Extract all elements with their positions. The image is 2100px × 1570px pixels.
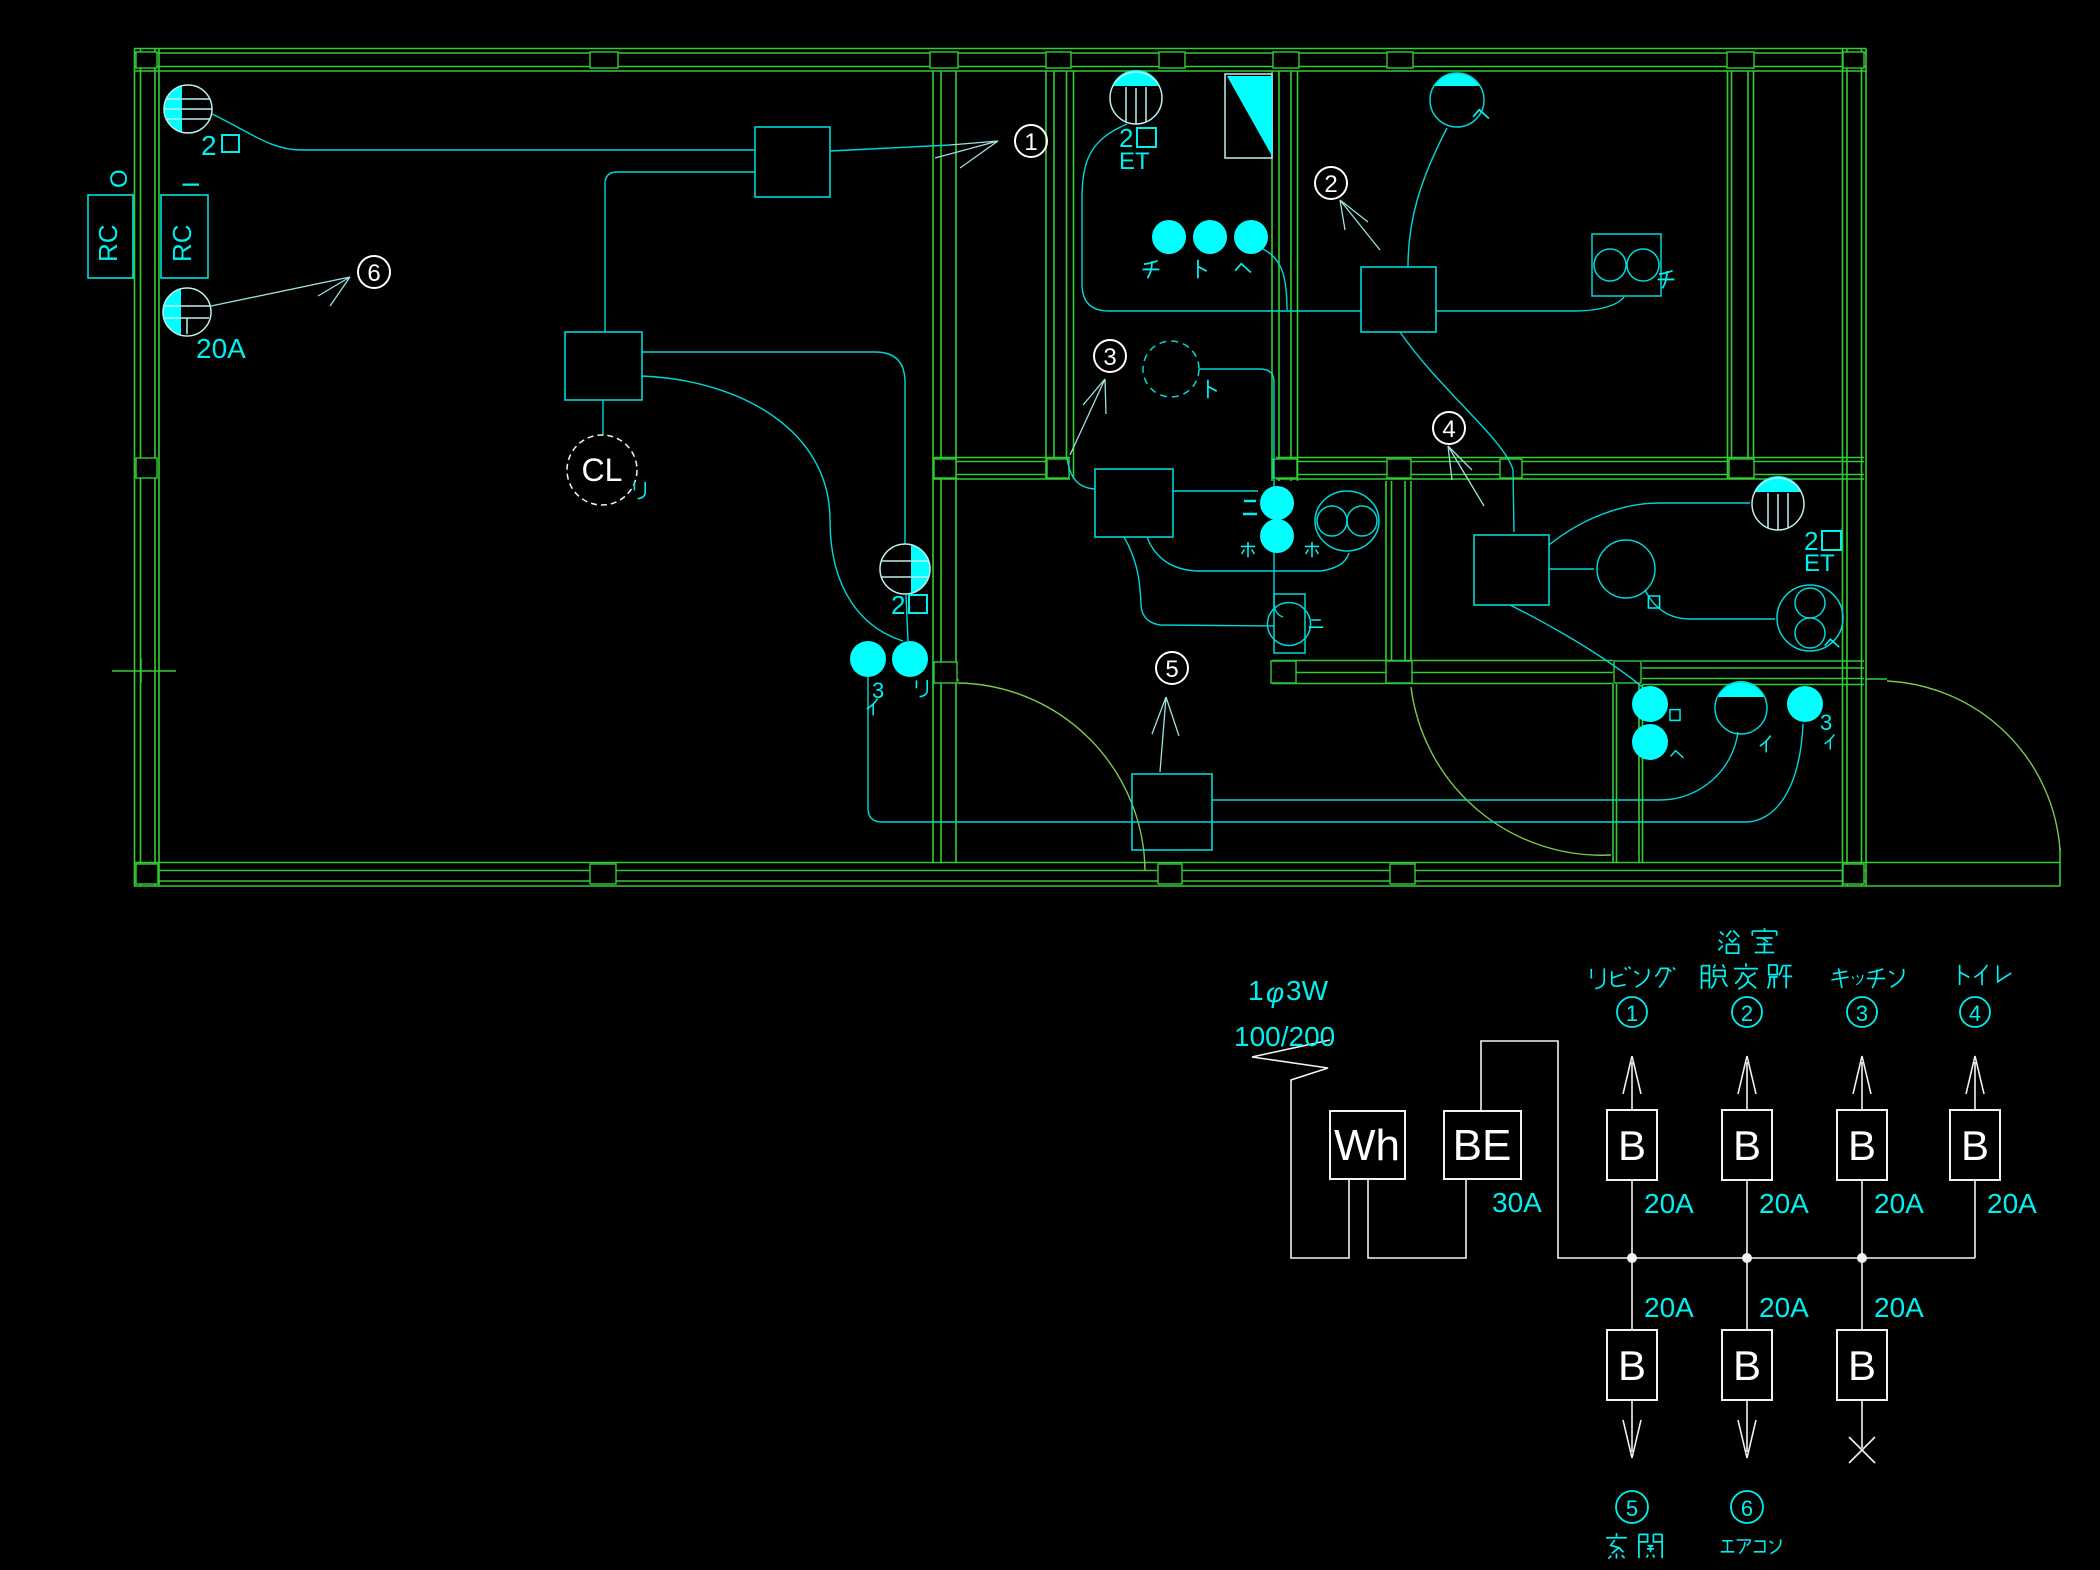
label 20A c6	[1759, 1292, 1809, 1323]
pillar top wall x600	[590, 52, 618, 68]
wall left outer	[135, 49, 160, 887]
pillar V3-H1	[1273, 459, 1297, 478]
switch i pilot entrance	[1715, 681, 1767, 734]
svg-text:CL: CL	[582, 452, 623, 488]
wire outlet hall to switch ri	[906, 595, 908, 641]
wall door jamb genkan	[1866, 678, 1887, 680]
svg-text:6: 6	[367, 260, 380, 287]
pillar bottom wall x1158	[1158, 864, 1182, 884]
label 1phi3W	[1248, 975, 1329, 1008]
switch ni washroom	[1260, 486, 1294, 520]
fan ni washroom	[1268, 594, 1311, 653]
wall V4	[1728, 71, 1754, 479]
pillar top wall x1387	[1387, 52, 1413, 68]
svg-text:1: 1	[1248, 975, 1264, 1006]
wire JB bath to toilet JB	[1400, 332, 1514, 532]
wire JB bath to outlet chi	[1436, 297, 1624, 311]
label dressing kanji	[1702, 963, 1793, 989]
label bath kanji	[1718, 928, 1776, 953]
junction box toilet	[1474, 535, 1549, 605]
axis tick left wall	[112, 659, 176, 683]
svg-text:ET: ET	[1119, 148, 1150, 175]
wire outlet2k to JB1	[212, 114, 755, 150]
svg-text:2: 2	[1741, 1001, 1753, 1026]
svg-text:B: B	[1733, 1342, 1761, 1389]
wire switch3i to box5 to switch3i right	[868, 677, 1803, 822]
pins bus to lower B	[1632, 1258, 1862, 1330]
wire lamp ro to fan he	[1645, 590, 1775, 619]
label 20A outlet B	[196, 333, 246, 364]
label i switch	[1760, 736, 1771, 753]
wire JB2 to CL	[602, 400, 604, 435]
wire lamp to to fan	[1199, 369, 1283, 617]
label ni dashes washroom	[1243, 501, 1257, 514]
arrow up circuit2	[1738, 1056, 1756, 1110]
breaker B1	[1607, 1110, 1657, 1180]
label 2k outlet A	[201, 130, 239, 161]
switch he entrance	[1632, 724, 1668, 760]
label 20A c2	[1759, 1188, 1809, 1219]
circled number 2	[1315, 167, 1347, 199]
pillar V3-H2	[1271, 661, 1296, 683]
label entrance kanji	[1606, 1533, 1662, 1559]
svg-text:Wh: Wh	[1334, 1121, 1400, 1170]
svg-text:20A: 20A	[1874, 1292, 1924, 1323]
pillar top-left corner	[136, 52, 157, 68]
svg-text:O: O	[106, 169, 133, 188]
circled number 3	[1094, 340, 1126, 372]
wall H1 east	[1276, 458, 1864, 480]
circled number 1	[1015, 125, 1047, 157]
switch ri hall	[892, 641, 928, 677]
svg-text:5: 5	[1165, 656, 1178, 683]
arrow down circuit5	[1623, 1400, 1641, 1458]
pillar V4-H1	[1729, 459, 1754, 478]
oval lamp ho washroom	[1315, 491, 1379, 551]
ceiling light CL	[567, 435, 637, 505]
lamp he bath	[1430, 73, 1484, 127]
svg-text:30A: 30A	[1492, 1187, 1542, 1218]
door arc entrance	[1887, 681, 2060, 850]
breaker B2	[1722, 1110, 1772, 1180]
wire washbox to switches ni-ho	[1173, 490, 1258, 492]
svg-text:B: B	[1618, 1342, 1646, 1389]
label he switch	[1671, 751, 1684, 758]
pillar bottom-left corner	[136, 864, 158, 884]
label to lamp	[1208, 380, 1217, 398]
service riser zigzag	[1252, 1040, 1349, 1258]
arrow to 4	[1448, 446, 1484, 506]
wire switch he stub	[1263, 249, 1287, 310]
distribution board triangle	[1225, 74, 1272, 158]
arrow to 2	[1340, 200, 1380, 250]
svg-text:2: 2	[891, 590, 905, 620]
label 3i hall	[872, 678, 884, 703]
wall V2	[1046, 71, 1074, 479]
wire JB bath to lamp he	[1408, 128, 1447, 267]
pillar bottom wall x1390	[1390, 864, 1415, 884]
breaker BE	[1444, 1111, 1521, 1179]
switch ro entrance	[1632, 686, 1668, 722]
outlet 2-gang left top	[164, 85, 212, 133]
wire JB1 to JB2	[605, 172, 755, 332]
outlet 2-gang hall	[880, 544, 930, 594]
label 20A c7	[1874, 1292, 1924, 1323]
svg-text:20A: 20A	[1644, 1188, 1694, 1219]
switch chi kitchen	[1152, 220, 1186, 254]
label 2kET toilet	[1804, 526, 1841, 577]
RC box outdoor	[88, 169, 133, 278]
pillar V3b-H1	[1387, 459, 1411, 478]
wire JB2 to switch ri	[642, 376, 903, 641]
svg-text:4: 4	[1442, 416, 1455, 443]
meter Wh	[1330, 1111, 1405, 1179]
wire washbox to oval	[1147, 537, 1349, 571]
wire into washbox left	[1067, 458, 1095, 489]
outlet box chi bath	[1592, 234, 1661, 296]
label ni fan	[1309, 620, 1323, 627]
label ri CL	[634, 482, 645, 499]
wall top outer	[134, 49, 1866, 72]
label ro lamp	[1648, 596, 1659, 608]
junction box JB1	[755, 127, 830, 197]
svg-text:4: 4	[1969, 1001, 1981, 1026]
svg-text:3: 3	[1103, 344, 1116, 371]
RC box indoor	[161, 181, 208, 278]
switch he kitchen	[1234, 220, 1268, 254]
label 2k outlet hall	[891, 590, 927, 620]
svg-text:I: I	[178, 181, 205, 188]
junction box hall5	[1132, 774, 1212, 850]
wire kitchen light to JB bath	[1082, 124, 1361, 311]
circled cyan 4	[1960, 997, 1990, 1027]
wire toilet JB to light et	[1549, 503, 1750, 545]
circled number 5	[1156, 652, 1188, 684]
wire JB1 to arrow1	[830, 145, 950, 151]
svg-text:20A: 20A	[1644, 1292, 1694, 1323]
svg-text:20A: 20A	[1759, 1292, 1809, 1323]
label chi outlet box	[1658, 271, 1675, 289]
wire JB2 to outlet hall	[642, 352, 905, 544]
label 20A c1	[1644, 1188, 1694, 1219]
svg-text:3: 3	[1820, 710, 1832, 735]
pillar H2 x1386	[1386, 661, 1412, 683]
wire BE to bus	[1481, 1041, 1975, 1258]
wall V1	[933, 71, 956, 862]
ceiling light 2kET kitchen	[1110, 70, 1162, 124]
circled cyan 3	[1847, 997, 1877, 1027]
outlet 20A left	[163, 288, 211, 336]
wall V5	[1613, 684, 1643, 862]
breaker B4	[1950, 1110, 2000, 1180]
wire box5 to switch i	[1212, 732, 1738, 800]
label 100per200	[1234, 1021, 1335, 1052]
junction box bath	[1361, 267, 1436, 332]
label living	[1591, 966, 1675, 988]
pillar top wall x1046	[1046, 52, 1071, 68]
pillar V2-H1	[1047, 459, 1069, 478]
wire washbox to fan	[1124, 537, 1274, 626]
pillar left wall mid	[136, 458, 157, 478]
pins B to bus	[1632, 1180, 1975, 1258]
arrow down circuit6	[1738, 1400, 1756, 1458]
wall genkan sill	[1866, 848, 2060, 886]
label 20A c4	[1987, 1188, 2037, 1219]
junction dot 1	[1627, 1253, 1637, 1263]
arrow to 6	[211, 277, 350, 306]
label 2kET kitchen	[1119, 123, 1156, 175]
wall V3	[1272, 71, 1298, 481]
arrow up circuit3	[1853, 1056, 1871, 1110]
door arc bath	[1411, 687, 1611, 855]
svg-text:2: 2	[1324, 171, 1337, 198]
wire toilet JB to lamp ro	[1549, 568, 1594, 570]
label he kitchen	[1235, 264, 1251, 273]
label he fan toilet	[1825, 639, 1839, 647]
pillar H1 x1500	[1500, 459, 1522, 478]
svg-text:BE: BE	[1453, 1121, 1512, 1170]
label 20A c3	[1874, 1188, 1924, 1219]
pillar top wall x1273	[1273, 52, 1299, 68]
door arcs	[958, 681, 2060, 870]
pillar top-right corner	[1843, 52, 1864, 68]
spare circuit x	[1849, 1400, 1875, 1463]
circled number 4	[1433, 412, 1465, 444]
circled cyan 5	[1616, 1491, 1648, 1523]
svg-text:1: 1	[1626, 1001, 1638, 1026]
label toilet	[1960, 965, 2012, 985]
circled number 6	[358, 256, 390, 288]
label kitchen	[1831, 968, 1903, 988]
label 20A c5	[1644, 1292, 1694, 1323]
svg-text:20A: 20A	[1987, 1188, 2037, 1219]
breaker B3	[1837, 1110, 1887, 1180]
breaker B6	[1722, 1330, 1772, 1400]
breaker B5	[1607, 1330, 1657, 1400]
svg-text:3: 3	[1856, 1001, 1868, 1026]
switch ho washroom	[1260, 519, 1294, 553]
junction box JB2	[565, 332, 642, 400]
svg-text:20A: 20A	[1759, 1188, 1809, 1219]
arrow up circuit4	[1966, 1056, 1984, 1110]
wall right outer	[1843, 49, 1867, 887]
arrow up circuit1	[1623, 1056, 1641, 1110]
svg-text:RC: RC	[167, 224, 197, 262]
wall H1 west	[933, 458, 1070, 480]
label 3i entrance	[1820, 710, 1832, 735]
pillar bottom-right corner	[1843, 864, 1864, 884]
svg-text:6: 6	[1741, 1496, 1753, 1521]
pillar V1-H1	[934, 459, 956, 478]
svg-text:100/200: 100/200	[1234, 1021, 1335, 1052]
ceiling light 2kET toilet	[1752, 476, 1804, 530]
junction dot 2	[1742, 1253, 1752, 1263]
pillar top wall x1159	[1159, 52, 1185, 68]
lamp to kitchen	[1143, 341, 1199, 397]
door arc hall	[958, 683, 1145, 870]
wall H2 west	[1272, 661, 1613, 684]
pillar V1 door	[934, 662, 957, 683]
label ri hall	[916, 680, 927, 697]
arrow to 5	[1152, 697, 1179, 772]
svg-text:B: B	[1733, 1122, 1761, 1169]
svg-text:2: 2	[201, 130, 217, 161]
label he bath	[1473, 110, 1489, 119]
wall pillar blocks	[136, 52, 1864, 884]
svg-text:RC: RC	[93, 224, 123, 262]
wall H2 east	[1642, 661, 1864, 685]
circled cyan 1	[1617, 997, 1647, 1027]
label aircon	[1721, 1539, 1781, 1553]
svg-text:B: B	[1961, 1122, 1989, 1169]
pillar bottom wall x590	[590, 864, 616, 884]
arrow to 1	[935, 141, 998, 168]
label ho washroom	[1241, 542, 1255, 557]
svg-text:ET: ET	[1804, 550, 1835, 577]
svg-text:5: 5	[1626, 1496, 1638, 1521]
pillar top wall x1727	[1727, 52, 1754, 68]
junction dot 3	[1857, 1253, 1867, 1263]
svg-text:B: B	[1618, 1122, 1646, 1169]
fan he toilet	[1777, 585, 1843, 651]
arrow to 3	[1070, 379, 1106, 455]
pillar top wall x930	[930, 52, 958, 68]
svg-text:3W: 3W	[1286, 975, 1329, 1006]
wall bottom outer	[134, 863, 1866, 887]
label ro switch	[1670, 710, 1680, 721]
switch 3i entrance	[1787, 686, 1823, 722]
svg-text:B: B	[1848, 1342, 1876, 1389]
lamp ro toilet	[1597, 540, 1655, 598]
circled cyan 6	[1731, 1491, 1763, 1523]
switch 3i hall	[850, 641, 886, 677]
breaker B7	[1837, 1330, 1887, 1400]
circled cyan 2	[1732, 997, 1762, 1027]
svg-text:1: 1	[1024, 129, 1037, 156]
wall V3b washroom-toilet	[1386, 481, 1411, 660]
label 30A	[1492, 1187, 1542, 1218]
svg-text:20A: 20A	[1874, 1188, 1924, 1219]
svg-text:20A: 20A	[196, 333, 246, 364]
junction box washroom	[1095, 469, 1173, 537]
wall door jamb hall	[941, 679, 959, 681]
wire Wh to BE	[1368, 1179, 1466, 1258]
svg-text:φ: φ	[1266, 977, 1284, 1008]
pillar V5-H2	[1614, 661, 1641, 683]
label to kitchen	[1198, 260, 1207, 278]
label chi kitchen	[1143, 261, 1160, 279]
label ho oval	[1305, 542, 1319, 557]
wire toilet JB to switch ro	[1510, 605, 1646, 690]
switch to kitchen	[1193, 220, 1227, 254]
svg-text:B: B	[1848, 1122, 1876, 1169]
